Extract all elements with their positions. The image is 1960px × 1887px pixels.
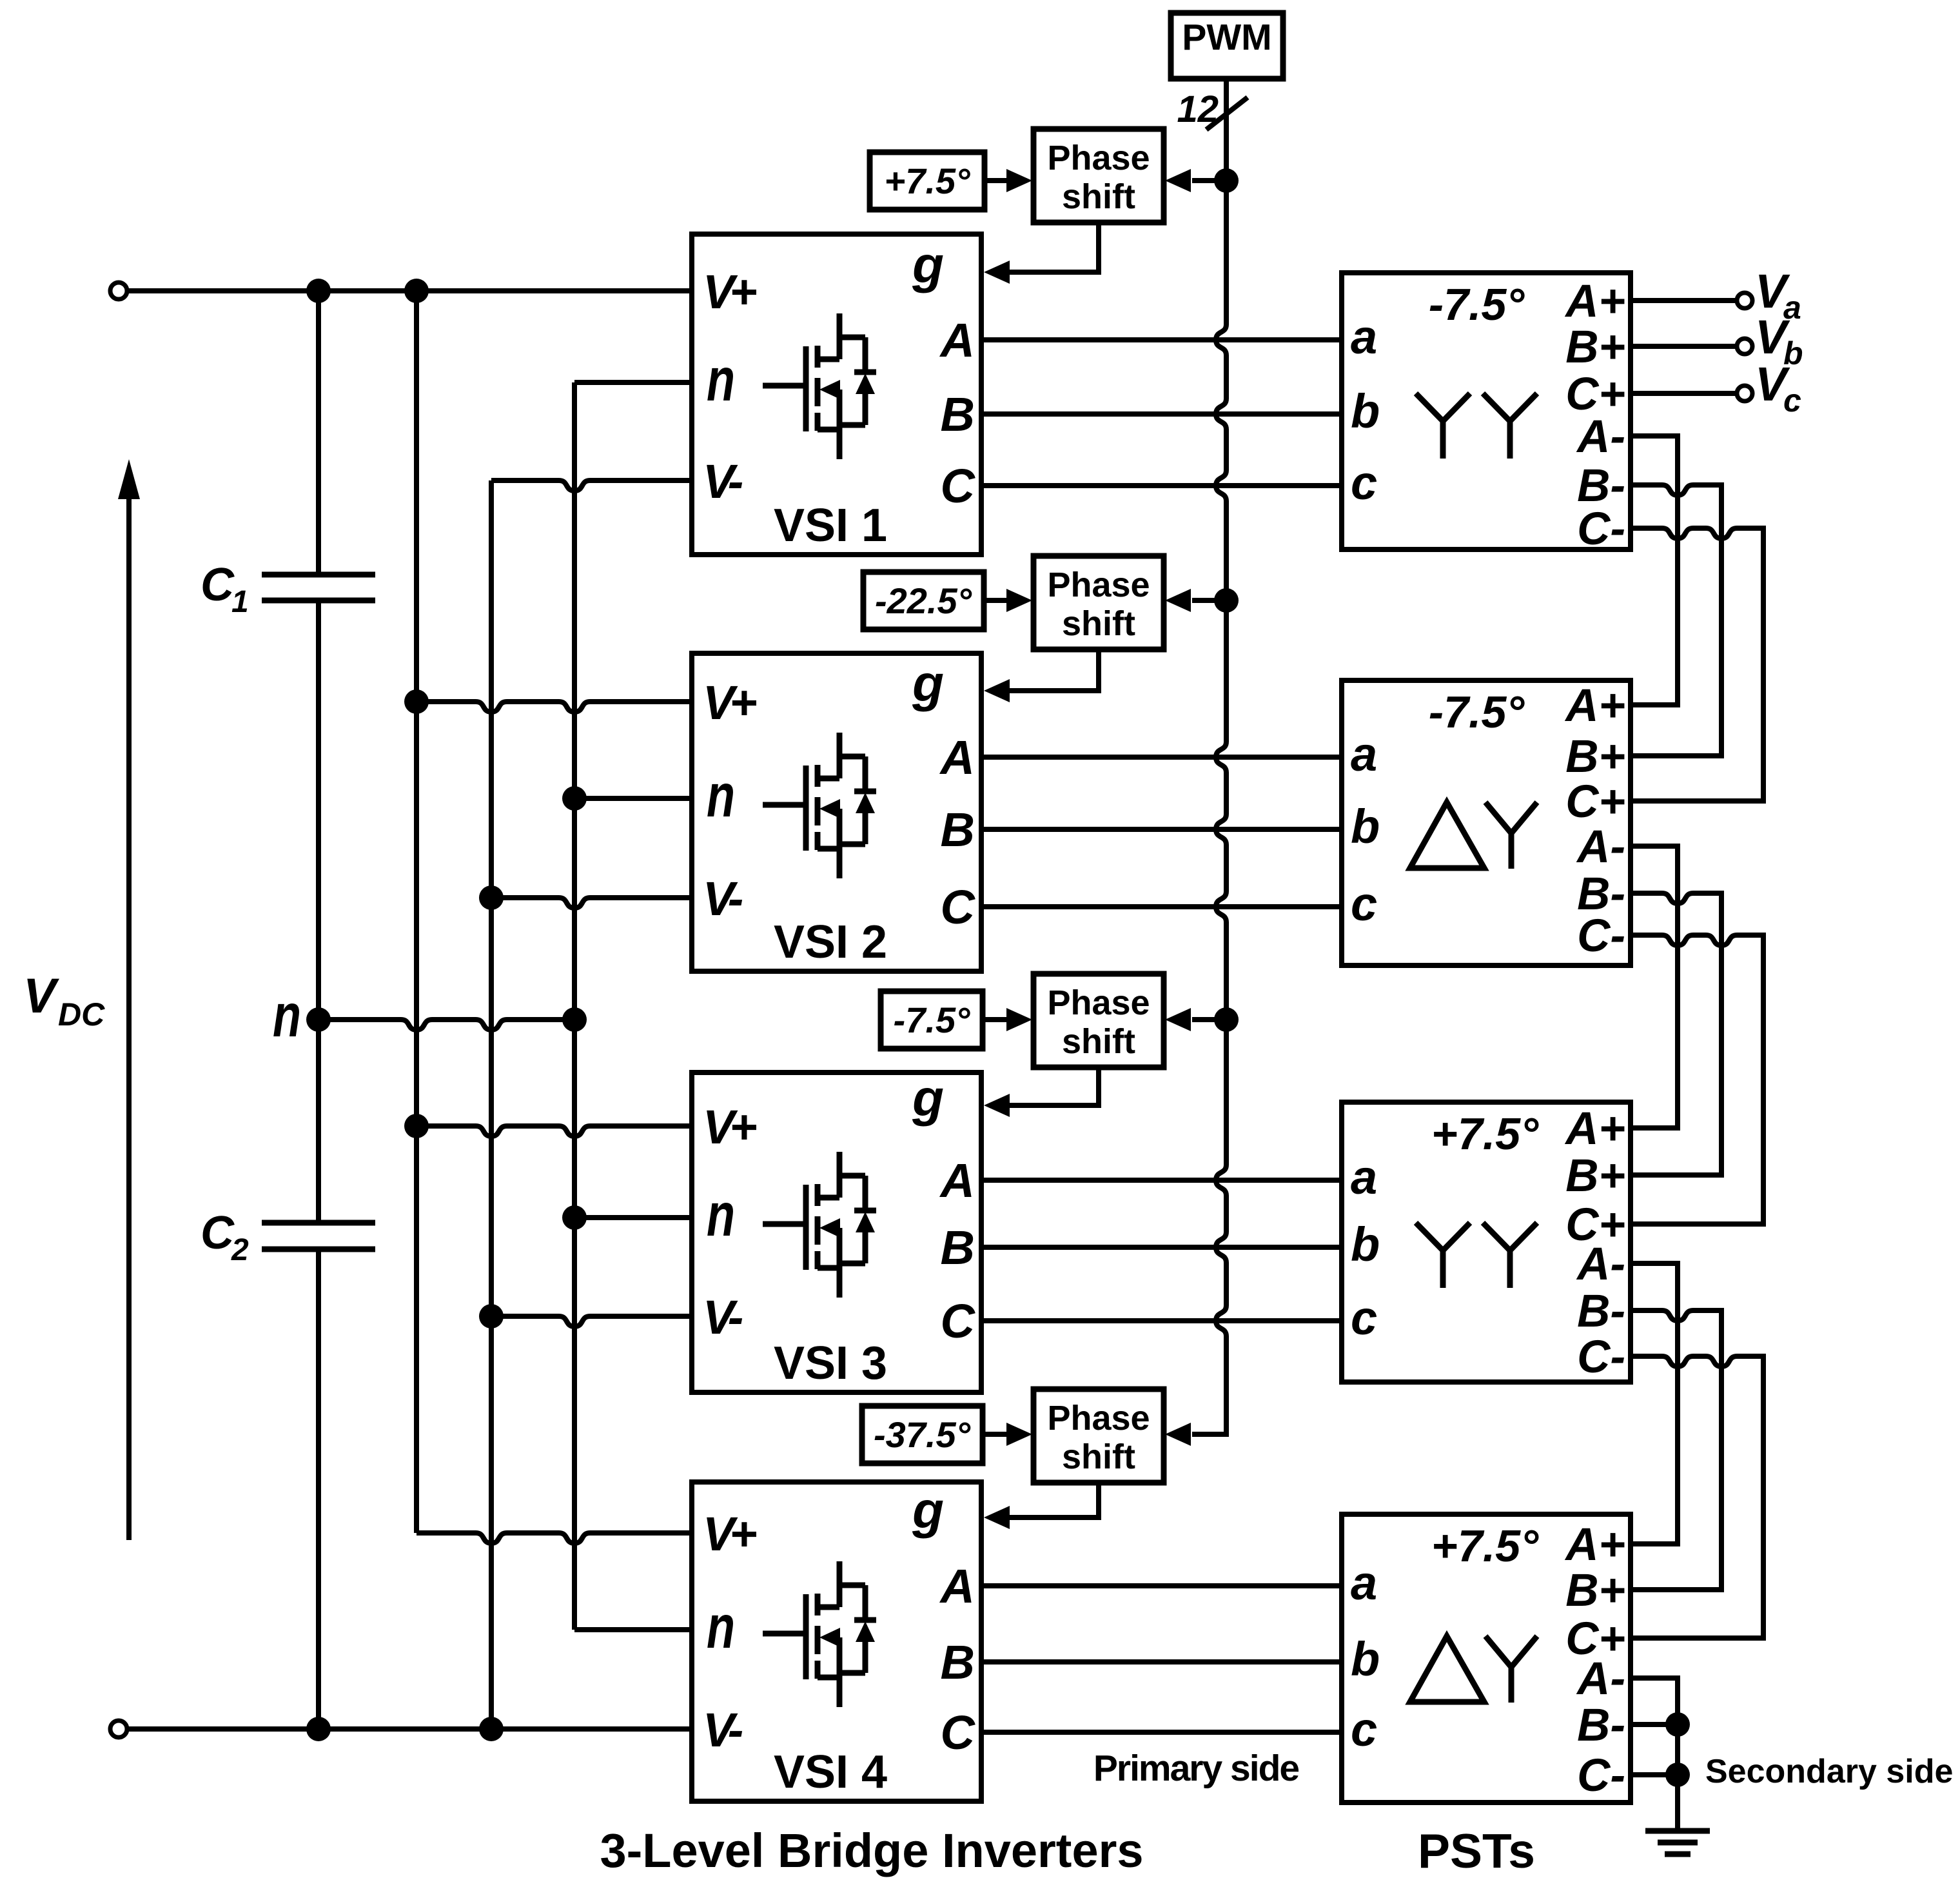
svg-text:Primary side: Primary side	[1093, 1748, 1298, 1789]
svg-text:g: g	[912, 1069, 944, 1127]
pin label b of PST2	[1351, 800, 1380, 853]
svg-text:A-: A-	[1576, 1239, 1625, 1290]
svg-text:V+: V+	[703, 1507, 756, 1561]
svg-text:-7.5°: -7.5°	[1429, 687, 1525, 737]
label VDC	[23, 969, 105, 1032]
svg-text:Phase: Phase	[1047, 139, 1150, 177]
svg-text:B: B	[941, 1635, 975, 1689]
ground symbol	[1645, 1831, 1710, 1854]
pin label V+ of VSI 2	[703, 676, 756, 729]
svg-text:n: n	[707, 1181, 735, 1249]
pin label A- of PST3	[1576, 1239, 1625, 1290]
svg-text:shift: shift	[1062, 1022, 1135, 1061]
svg-text:VSI 4: VSI 4	[774, 1746, 887, 1798]
pin label V- of VSI 2	[703, 872, 743, 925]
caption PSTs	[1418, 1824, 1535, 1878]
wire PST4 A- to neutral	[1631, 1678, 1678, 1831]
pin label B of VSI 1	[941, 388, 975, 441]
pin label B+ of PST3	[1565, 1151, 1625, 1201]
label VSI 1	[774, 500, 887, 551]
wire VSI3 n feed	[574, 1215, 692, 1220]
wire DC link lower segment	[316, 1249, 321, 1729]
wire PST4 B- to neutral	[1631, 1722, 1678, 1727]
wire VSI2 C to PST2 c	[981, 904, 1342, 909]
label Va	[1755, 264, 1801, 326]
pin label C- of PST1	[1577, 504, 1625, 555]
pin label a of PST3	[1351, 1151, 1377, 1204]
pin label g of VSI 3	[912, 1069, 944, 1127]
svg-text:C: C	[941, 880, 976, 934]
block angle reference +7.5deg box	[870, 152, 985, 210]
block PWM box	[1171, 13, 1283, 79]
pin label A of VSI 3	[939, 1154, 975, 1207]
pin label V+ of VSI 3	[703, 1100, 756, 1154]
wire DC link upper segment	[316, 291, 321, 575]
pin label A of VSI 1	[939, 313, 975, 367]
wire bus end corner to phase shift 4	[1192, 1414, 1226, 1434]
junction n rail / n bus	[562, 1007, 587, 1032]
label C1	[201, 559, 249, 619]
svg-text:B: B	[941, 388, 975, 441]
arrowhead into phase shift 3 left	[1006, 1008, 1032, 1031]
label Phase shift 3	[1047, 983, 1150, 1061]
junction V+ bus / VSI2	[404, 689, 429, 714]
svg-text:n: n	[273, 982, 301, 1050]
svg-text:A: A	[939, 1559, 975, 1613]
wire PST3 A- to PST4 A+	[1631, 1263, 1678, 1544]
pin label A+ of PST1	[1564, 276, 1625, 327]
pin label B+ of PST1	[1565, 322, 1625, 373]
pin label g of VSI 2	[912, 655, 944, 712]
svg-text:-37.5°: -37.5°	[874, 1414, 971, 1455]
wire VSI4 A to PST4 a	[981, 1583, 1342, 1588]
pin label V+ of VSI 1	[703, 265, 756, 319]
pin label g of VSI 4	[912, 1481, 944, 1539]
transformer block PST1 box	[1342, 273, 1631, 549]
svg-text:Phase: Phase	[1047, 983, 1150, 1022]
inverter block VSI 3 box	[692, 1072, 981, 1392]
wire DC- bottom rail	[127, 1726, 692, 1732]
pin label A- of PST1	[1576, 411, 1625, 462]
label n	[273, 982, 301, 1050]
wire VSI4 V+ feed	[416, 1533, 692, 1543]
pin label C+ of PST1	[1565, 369, 1625, 420]
svg-text:+7.5°: +7.5°	[1431, 1109, 1539, 1159]
svg-text:g: g	[912, 1481, 944, 1539]
pin label C+ of PST4	[1565, 1614, 1625, 1665]
transistor symbol inside VSI 2	[763, 733, 876, 878]
svg-text:B: B	[941, 803, 975, 856]
wire VSI3 A to PST3 a	[981, 1178, 1342, 1183]
caption 3-Level Bridge Inverters	[600, 1824, 1143, 1877]
block angle reference -22.5deg box	[863, 572, 984, 629]
svg-text:c: c	[1783, 382, 1801, 419]
winding symbol YY of PST3	[1416, 1223, 1537, 1288]
wire VSI2 V+ feed	[416, 702, 692, 712]
pin label C- of PST3	[1577, 1332, 1625, 1383]
svg-text:VSI 1: VSI 1	[774, 500, 887, 551]
junction bottom rail / V- bus	[479, 1717, 504, 1741]
pin label V- of VSI 3	[703, 1290, 743, 1344]
wire n rail	[318, 1020, 574, 1030]
wire angle3 to phase shift 3	[983, 1017, 1008, 1022]
pin label A of VSI 2	[939, 731, 975, 784]
junction top rail / V+ bus	[404, 279, 429, 303]
svg-text:c: c	[1351, 1291, 1377, 1345]
label Phase shift 1	[1047, 139, 1150, 216]
pin label a of PST2	[1351, 727, 1377, 781]
wire phase shift 3 to g of VSI 3	[1010, 1067, 1099, 1105]
svg-text:DC: DC	[58, 996, 105, 1032]
svg-text:shift: shift	[1062, 1437, 1135, 1476]
arrowhead into g pin of VSI 4	[984, 1506, 1010, 1529]
label Secondary side	[1705, 1753, 1953, 1790]
svg-text:shift: shift	[1062, 177, 1135, 216]
label phase angle of PST2	[1429, 687, 1525, 737]
svg-text:+7.5°: +7.5°	[885, 161, 971, 201]
wire angle1 to phase shift 1	[985, 178, 1008, 183]
arrowhead into phase shift 3 right	[1165, 1008, 1191, 1031]
label VSI 3	[774, 1338, 887, 1389]
svg-text:a: a	[1351, 1151, 1377, 1204]
wire VSI2 V- feed	[491, 898, 692, 908]
terminal Vc	[1737, 386, 1752, 401]
pin label b of PST4	[1351, 1632, 1380, 1686]
pin label a of PST4	[1351, 1556, 1377, 1610]
svg-text:V-: V-	[703, 1290, 743, 1344]
svg-text:V+: V+	[703, 1100, 756, 1154]
svg-text:g: g	[912, 655, 944, 712]
pin label B+ of PST4	[1565, 1565, 1625, 1616]
svg-text:C: C	[201, 559, 235, 611]
svg-text:V+: V+	[703, 676, 756, 729]
wire n bus vertical	[572, 382, 577, 1630]
wire PST4 C- to neutral	[1631, 1772, 1678, 1777]
junction bottom rail / C2 leg	[306, 1717, 331, 1741]
svg-text:V-: V-	[703, 455, 743, 508]
svg-text:C+: C+	[1565, 776, 1625, 827]
wire VSI2 n feed	[574, 796, 692, 801]
wire VSI4 C to PST4 c	[981, 1730, 1342, 1735]
svg-text:V-: V-	[703, 872, 743, 925]
junction n bus / VSI2	[562, 786, 587, 811]
pin label A+ of PST3	[1564, 1103, 1625, 1154]
svg-text:c: c	[1351, 877, 1377, 931]
svg-text:b: b	[1351, 1218, 1380, 1271]
pin label B+ of PST2	[1565, 731, 1625, 782]
svg-text:A+: A+	[1564, 680, 1625, 731]
svg-text:3-Level Bridge Inverters: 3-Level Bridge Inverters	[600, 1824, 1143, 1877]
svg-text:B+: B+	[1565, 1151, 1625, 1201]
pin label C of VSI 3	[941, 1294, 976, 1348]
wire PWM bus vertical	[1216, 79, 1226, 1414]
label phase angle of PST3	[1431, 1109, 1539, 1159]
wire phase shift 2 to g of VSI 2	[1010, 649, 1099, 691]
svg-text:PSTs: PSTs	[1418, 1824, 1535, 1878]
pin label g of VSI 1	[912, 236, 944, 293]
svg-text:B: B	[941, 1221, 975, 1274]
wire PST1 A- to PST2 A+	[1631, 436, 1678, 705]
svg-text:A: A	[939, 731, 975, 784]
wire VSI1 B to PST1 b	[981, 411, 1342, 417]
pin label A+ of PST2	[1564, 680, 1625, 731]
wire phase shift 4 to g of VSI 4	[1010, 1483, 1099, 1517]
pin label n of VSI 2	[707, 762, 735, 830]
pin label n of VSI 3	[707, 1181, 735, 1249]
svg-text:-7.5°: -7.5°	[894, 1000, 970, 1040]
wire PST3 C- to PST4 C+	[1631, 1356, 1763, 1638]
label angle 2	[875, 580, 972, 621]
pin label A- of PST4	[1576, 1654, 1625, 1704]
block Phase shift 3 box	[1034, 974, 1164, 1067]
svg-text:A-: A-	[1576, 1654, 1625, 1704]
capacitor C1	[262, 575, 375, 600]
svg-text:Phase: Phase	[1047, 1399, 1150, 1437]
svg-text:V+: V+	[703, 265, 756, 319]
svg-text:12: 12	[1177, 88, 1219, 130]
label C2	[201, 1207, 249, 1267]
label phase angle of PST1	[1429, 279, 1525, 330]
pin label b of PST3	[1351, 1218, 1380, 1271]
svg-text:C: C	[941, 1294, 976, 1348]
pin label B- of PST2	[1577, 869, 1625, 920]
inverter block VSI 1 box	[692, 234, 981, 555]
svg-text:A: A	[939, 313, 975, 367]
junction n bus / VSI3	[562, 1205, 587, 1230]
junction PWM bus tap 1	[1214, 168, 1239, 193]
pin label B- of PST1	[1577, 460, 1625, 511]
pin label C- of PST2	[1577, 911, 1625, 962]
svg-text:A+: A+	[1564, 276, 1625, 327]
wire VSI1 V- feed	[491, 480, 692, 491]
label VSI 4	[774, 1746, 887, 1798]
label 12 bus width	[1177, 88, 1219, 130]
pin label B- of PST4	[1577, 1700, 1625, 1751]
terminal Va	[1737, 293, 1752, 308]
svg-text:B+: B+	[1565, 322, 1625, 373]
bus width slash mark	[1206, 97, 1248, 130]
svg-text:A-: A-	[1576, 411, 1625, 462]
svg-text:b: b	[1351, 800, 1380, 853]
svg-text:Secondary side: Secondary side	[1705, 1753, 1953, 1790]
label Vb	[1755, 310, 1803, 371]
wire bus tap to phase shift 1	[1192, 178, 1226, 183]
wire VSI3 V- feed	[491, 1316, 692, 1327]
wire VSI4 n feed	[574, 1627, 692, 1632]
wire VSI3 C to PST3 c	[981, 1318, 1342, 1323]
block Phase shift 2 box	[1034, 556, 1164, 649]
svg-text:g: g	[912, 236, 944, 293]
node n junction	[306, 1007, 331, 1032]
label PWM	[1182, 17, 1271, 58]
junction V+ bus / VSI3	[404, 1114, 429, 1138]
wire VSI1 A to PST1 a	[981, 337, 1342, 342]
pin label B of VSI 3	[941, 1221, 975, 1274]
svg-text:C-: C-	[1577, 1332, 1625, 1383]
pin label C+ of PST3	[1565, 1200, 1625, 1250]
wire PST2 B- to PST3 B+	[1631, 893, 1721, 1175]
label phase angle of PST4	[1431, 1521, 1539, 1571]
pin label C+ of PST2	[1565, 776, 1625, 827]
terminal Vb	[1737, 339, 1752, 354]
arrowhead into phase shift 1 left	[1006, 169, 1032, 192]
svg-text:PWM: PWM	[1182, 17, 1271, 58]
svg-text:B-: B-	[1577, 1700, 1625, 1751]
label Vc	[1755, 357, 1801, 419]
svg-text:A: A	[939, 1154, 975, 1207]
wire VSI2 B to PST2 b	[981, 827, 1342, 832]
svg-text:n: n	[707, 762, 735, 830]
svg-text:Phase: Phase	[1047, 566, 1150, 604]
arrowhead into phase shift 2 right	[1165, 589, 1191, 612]
wire PST2 A- to PST3 A+	[1631, 846, 1678, 1128]
wire VSI1 n feed	[574, 380, 692, 385]
transistor symbol inside VSI 3	[763, 1152, 876, 1298]
winding symbol delta-Y of PST2	[1410, 802, 1537, 869]
svg-text:-22.5°: -22.5°	[875, 580, 972, 621]
svg-text:b: b	[1351, 384, 1380, 438]
junction V- bus / VSI2	[479, 885, 504, 910]
wire phase shift 1 to g of VSI 1	[1010, 222, 1099, 272]
wire V+ bus vertical	[414, 291, 419, 1533]
pin label c of PST2	[1351, 877, 1377, 931]
wire angle2 to phase shift 2	[984, 598, 1008, 603]
junction top rail / C1 leg	[306, 279, 331, 303]
wire PST1 B+ to Vb terminal	[1631, 344, 1737, 349]
wire VSI1 C to PST1 c	[981, 483, 1342, 488]
wire VSI2 A to PST2 a	[981, 755, 1342, 760]
label VSI 2	[774, 916, 887, 968]
wire DC link middle segment	[316, 600, 321, 1223]
pin label c of PST1	[1351, 456, 1377, 509]
svg-text:V: V	[23, 969, 59, 1023]
pin label V- of VSI 4	[703, 1703, 743, 1757]
capacitor C2	[262, 1223, 375, 1249]
svg-text:C: C	[941, 459, 976, 513]
pin label B of VSI 4	[941, 1635, 975, 1689]
wire PST1 C- to PST2 C+	[1631, 528, 1763, 801]
arrow VDC	[118, 459, 140, 1540]
svg-text:a: a	[1351, 1556, 1377, 1610]
transformer block PST4 box	[1342, 1514, 1631, 1803]
svg-text:A-: A-	[1576, 822, 1625, 873]
svg-text:a: a	[1351, 310, 1377, 364]
pin label C of VSI 4	[941, 1706, 976, 1759]
svg-text:B+: B+	[1565, 731, 1625, 782]
label Phase shift 4	[1047, 1399, 1150, 1476]
pin label A+ of PST4	[1564, 1519, 1625, 1570]
arrowhead into g pin of VSI 2	[984, 679, 1010, 702]
pin label a of PST1	[1351, 310, 1377, 364]
svg-text:B+: B+	[1565, 1565, 1625, 1616]
pin label n of VSI 4	[707, 1593, 735, 1661]
svg-text:1: 1	[231, 585, 249, 619]
wire VSI4 B to PST4 b	[981, 1659, 1342, 1665]
arrowhead into g pin of VSI 3	[984, 1094, 1010, 1117]
arrowhead into phase shift 4 left	[1006, 1423, 1032, 1446]
label angle 1	[885, 161, 971, 201]
arrowhead into phase shift 1 right	[1165, 169, 1191, 192]
wire bus tap to phase shift 2	[1192, 598, 1226, 603]
pin label V+ of VSI 4	[703, 1507, 756, 1561]
pin label B of VSI 2	[941, 803, 975, 856]
wire VSI3 V+ feed	[416, 1126, 692, 1136]
svg-text:-7.5°: -7.5°	[1429, 279, 1525, 330]
label angle 4	[874, 1414, 971, 1455]
arrowhead into phase shift 2 left	[1006, 589, 1032, 612]
winding symbol delta-Y of PST4	[1410, 1636, 1537, 1703]
wire bus tap to phase shift 3	[1192, 1017, 1226, 1022]
transformer block PST3 box	[1342, 1102, 1631, 1382]
svg-text:A+: A+	[1564, 1519, 1625, 1570]
block Phase shift 1 box	[1034, 129, 1164, 222]
pin label A- of PST2	[1576, 822, 1625, 873]
winding symbol YY of PST1	[1416, 393, 1537, 459]
svg-text:2: 2	[231, 1233, 249, 1267]
svg-text:c: c	[1351, 456, 1377, 509]
junction neutral C-	[1665, 1763, 1690, 1787]
arrowhead into phase shift 4 right	[1165, 1423, 1191, 1446]
wire PST2 C- to PST3 C+	[1631, 935, 1763, 1224]
block angle reference -37.5deg box	[862, 1406, 983, 1463]
svg-text:shift: shift	[1062, 604, 1135, 643]
svg-text:VSI 2: VSI 2	[774, 916, 887, 968]
pin label B- of PST3	[1577, 1286, 1625, 1337]
junction V- bus / VSI3	[479, 1304, 504, 1329]
svg-text:C-: C-	[1577, 911, 1625, 962]
svg-text:a: a	[1351, 727, 1377, 781]
transistor symbol inside VSI 4	[763, 1561, 876, 1707]
label Primary side	[1093, 1748, 1298, 1789]
label angle 3	[894, 1000, 970, 1040]
svg-text:n: n	[707, 1593, 735, 1661]
wire PST3 B- to PST4 B+	[1631, 1310, 1721, 1590]
junction PWM bus tap 3	[1214, 1007, 1239, 1032]
junction PWM bus tap 2	[1214, 588, 1239, 613]
svg-text:C-: C-	[1577, 504, 1625, 555]
arrowhead into g pin of VSI 1	[984, 261, 1010, 284]
svg-text:n: n	[707, 346, 735, 414]
inverter block VSI 4 box	[692, 1482, 981, 1801]
pin label b of PST1	[1351, 384, 1380, 438]
pin label c of PST3	[1351, 1291, 1377, 1345]
inverter block VSI 2 box	[692, 653, 981, 971]
wire VSI3 B to PST3 b	[981, 1245, 1342, 1250]
pin label C of VSI 2	[941, 880, 976, 934]
svg-text:c: c	[1351, 1703, 1377, 1756]
pin label n of VSI 1	[707, 346, 735, 414]
pin label C of VSI 1	[941, 459, 976, 513]
svg-text:+7.5°: +7.5°	[1431, 1521, 1539, 1571]
wire V- bus vertical	[489, 480, 494, 1729]
wire DC+ top rail	[127, 288, 692, 293]
transistor symbol inside VSI 1	[763, 313, 876, 459]
svg-text:C-: C-	[1577, 1750, 1625, 1801]
junction neutral B-	[1665, 1712, 1690, 1737]
pin label c of PST4	[1351, 1703, 1377, 1756]
pin label V- of VSI 1	[703, 455, 743, 508]
pin label A of VSI 4	[939, 1559, 975, 1613]
pin label C- of PST4	[1577, 1750, 1625, 1801]
svg-text:C: C	[941, 1706, 976, 1759]
svg-text:A+: A+	[1564, 1103, 1625, 1154]
wire PST1 B- to PST2 B+	[1631, 485, 1721, 756]
block Phase shift 4 box	[1034, 1389, 1164, 1483]
svg-text:VSI 3: VSI 3	[774, 1338, 887, 1389]
wire PST1 A+ to Va terminal	[1631, 298, 1737, 303]
svg-text:B-: B-	[1577, 1286, 1625, 1337]
transformer block PST2 box	[1342, 680, 1631, 965]
